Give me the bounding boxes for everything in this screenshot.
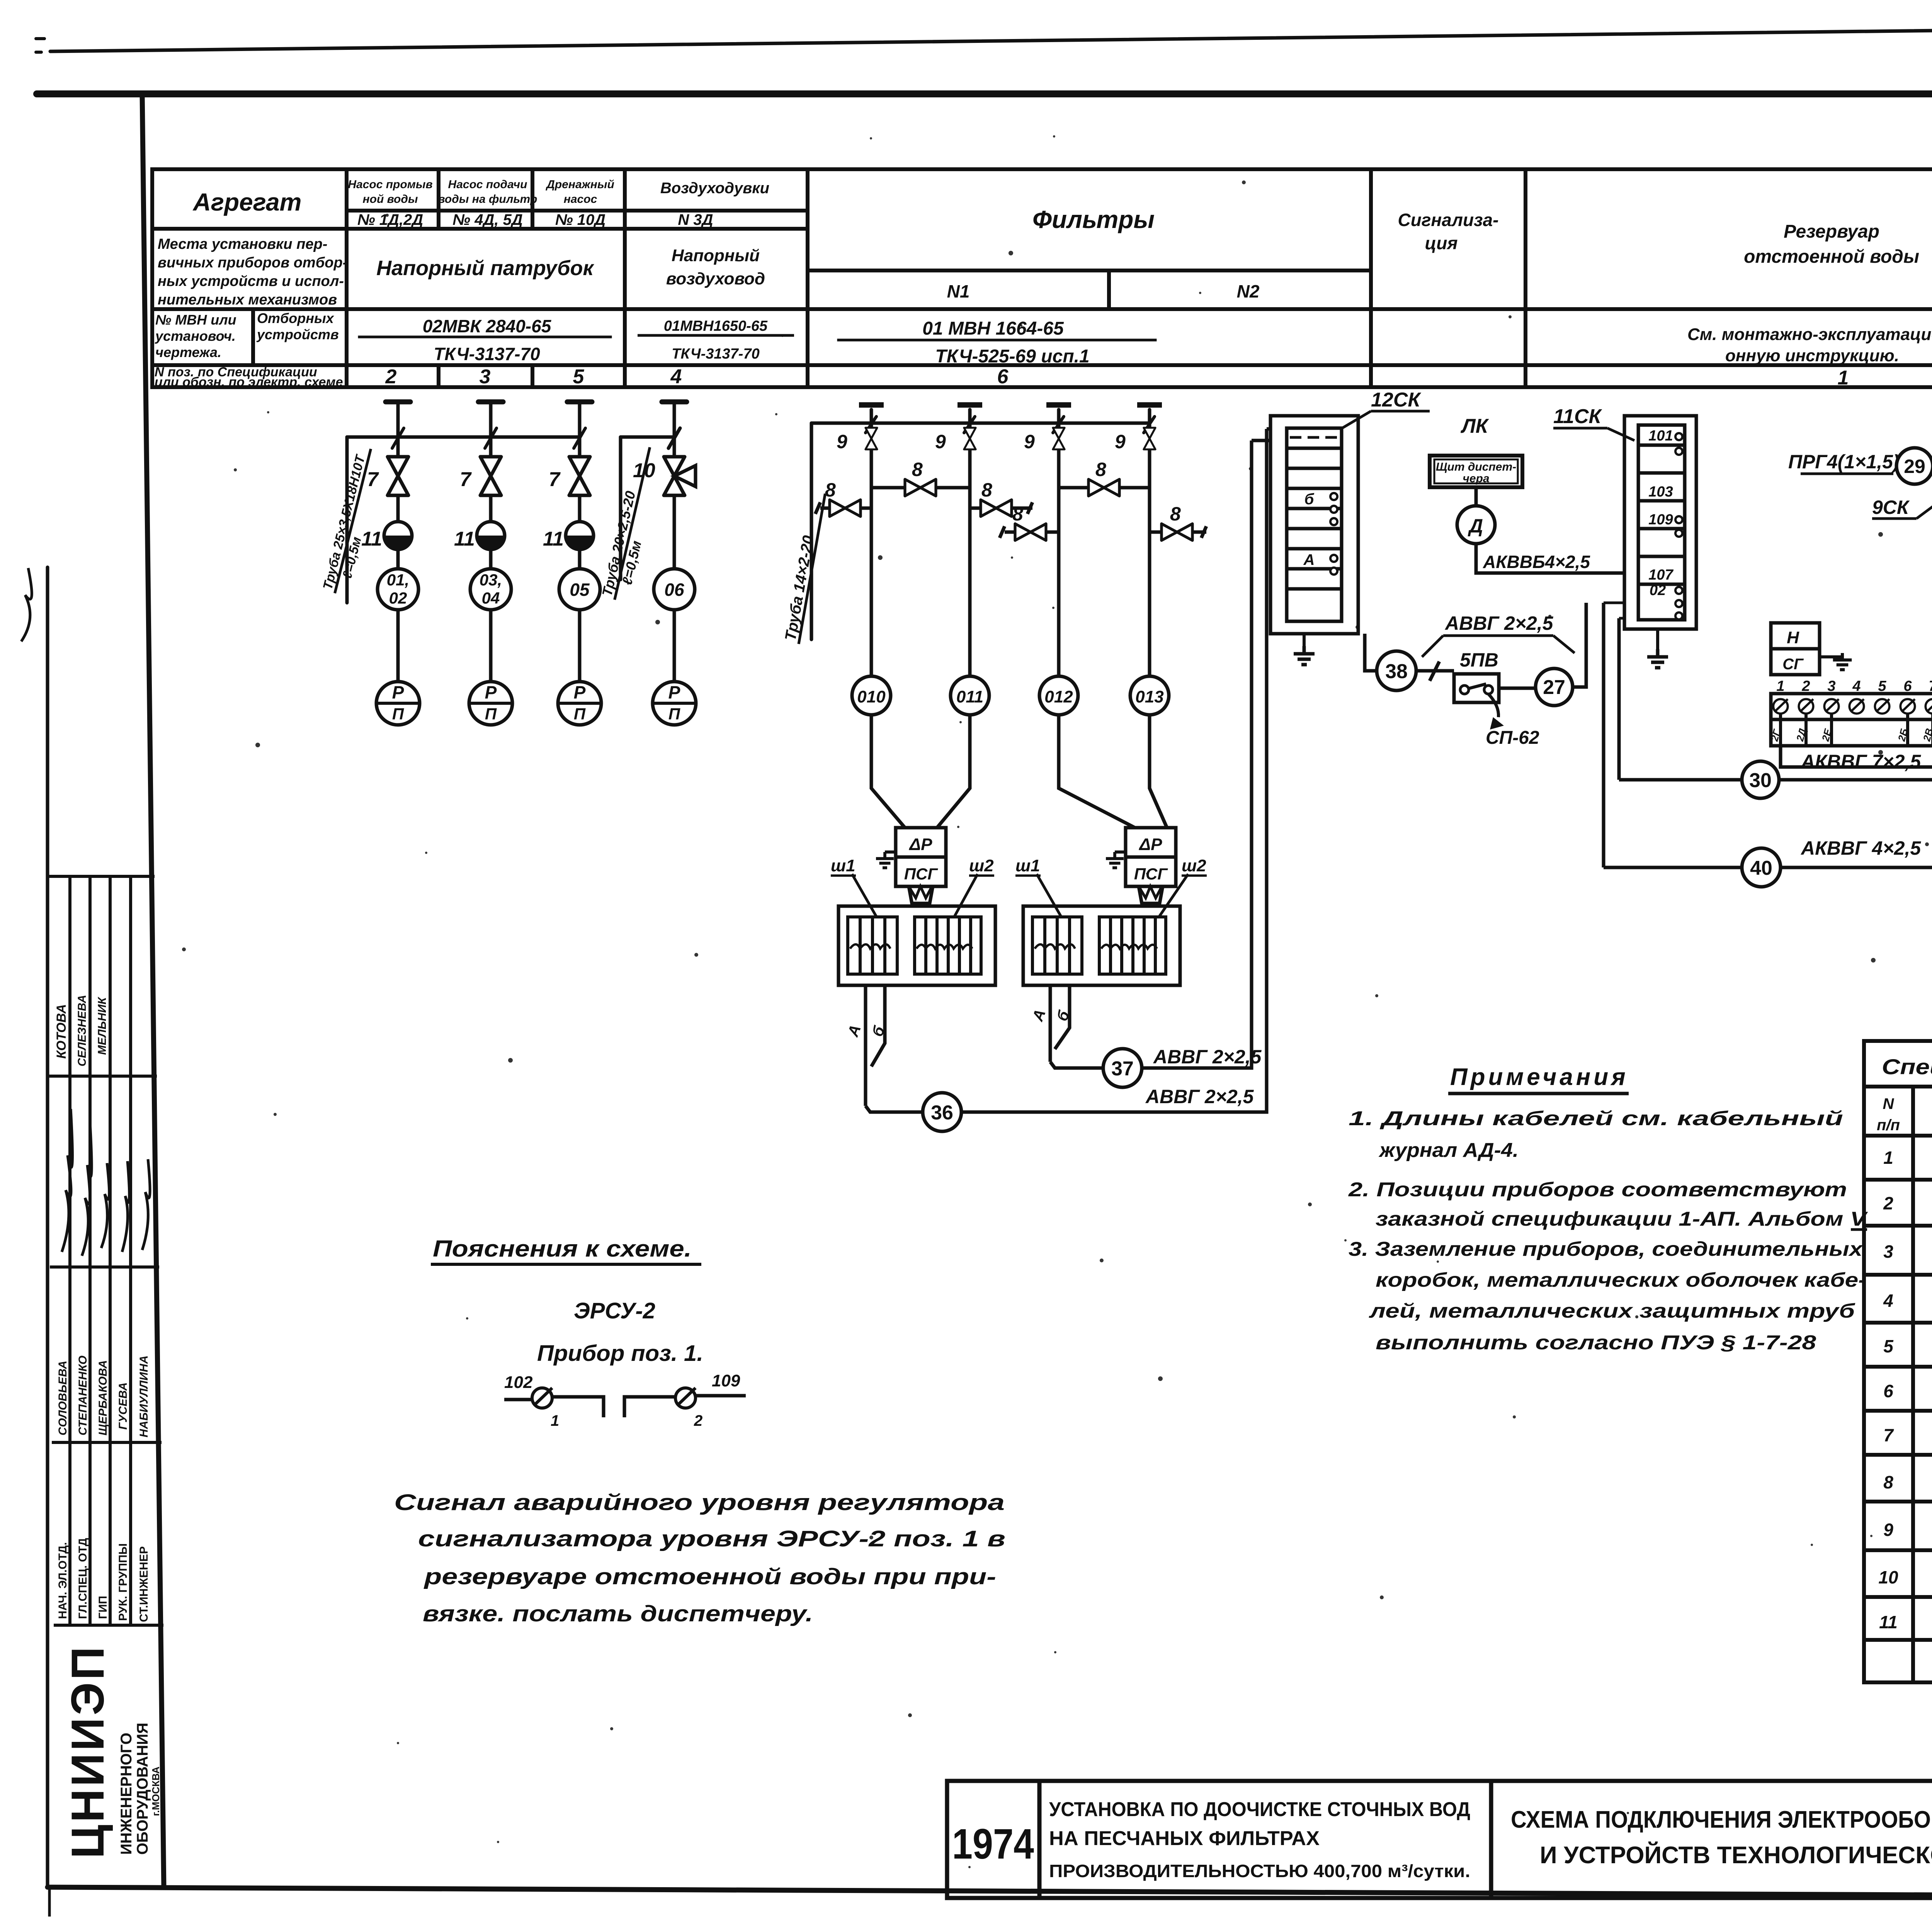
svg-text:03,: 03, [480, 571, 502, 589]
svg-text:СЕЛЕЗНЕВА: СЕЛЕЗНЕВА [76, 995, 88, 1066]
svg-text:ГИП: ГИП [97, 1596, 109, 1619]
wire col4 riser [673, 437, 676, 682]
svg-text:ГЛ.СПЕЦ. ОТД: ГЛ.СПЕЦ. ОТД [77, 1538, 89, 1619]
svg-text:9: 9 [1024, 431, 1035, 452]
svg-text:п/п: п/п [1877, 1117, 1900, 1134]
node circle 06 [654, 569, 695, 610]
wire 013 to dp2 [1150, 715, 1167, 828]
terminal strip set2 right [1099, 917, 1166, 974]
svg-text:заказной спецификации 1-АП.: заказной спецификации 1-АП. Альбом V [1376, 1208, 1868, 1230]
wire MVN sub divider [251, 309, 255, 365]
svg-text:МЕЛЬНИК: МЕЛЬНИК [96, 997, 109, 1055]
valve 8 stub left of col1 [815, 479, 871, 517]
junction box set2 outer [1023, 906, 1180, 985]
svg-text:30: 30 [1749, 769, 1772, 792]
ground under 12SK [1294, 634, 1315, 665]
node small terminal circles in 12SK [1330, 493, 1337, 575]
wire D to 11SK [1476, 544, 1624, 573]
svg-text:П: П [668, 705, 680, 723]
node title block frame [947, 1781, 1932, 1898]
wire underline album V [1851, 1228, 1867, 1231]
label signal text [394, 1490, 1005, 1626]
wire below-frame stub [48, 1887, 51, 1917]
svg-text:ТКЧ-3137-70: ТКЧ-3137-70 [672, 346, 759, 362]
svg-text:109: 109 [712, 1371, 740, 1390]
ground under 11SK [1647, 629, 1668, 668]
node t-caps above valves cols 1-3 [386, 400, 592, 405]
svg-text:журнал АД-4.: журнал АД-4. [1378, 1139, 1519, 1162]
svg-text:011: 011 [956, 687, 983, 706]
svg-text:АКВВГ 7×2,5: АКВВГ 7×2,5 [1800, 751, 1921, 772]
svg-text:Резервуар: Резервуар [1784, 221, 1879, 242]
svg-text:Р: Р [574, 682, 586, 702]
label poyasneniya title [431, 1236, 701, 1264]
svg-text:ш2: ш2 [969, 856, 994, 875]
svg-text:4: 4 [1852, 678, 1861, 694]
node circle 05 [559, 569, 600, 610]
label spec headers [1877, 1095, 1932, 1136]
svg-text:воды на фильтр: воды на фильтр [438, 193, 537, 206]
svg-text:СТЕПАНЕНКО: СТЕПАНЕНКО [77, 1355, 89, 1435]
node circle 36 [866, 1093, 961, 1131]
label stamp top rotated names [54, 995, 109, 1066]
valve 8 stub right of col4 [1150, 503, 1206, 541]
svg-text:8: 8 [912, 459, 923, 480]
wire spec column lines [1913, 1087, 1932, 1682]
svg-text:38: 38 [1385, 660, 1408, 683]
wire left margin line [46, 567, 49, 1887]
node terminal strip lower box [1771, 719, 1932, 746]
label sh1 set2 [1015, 856, 1061, 917]
svg-text:№ МВН или: № МВН или [155, 312, 236, 328]
wire switch arrow to SP-62 [1488, 694, 1498, 717]
transducer dP/PSG set1 [896, 828, 946, 903]
svg-text:ной воды: ной воды [363, 193, 418, 206]
node circle 30 [1619, 761, 1779, 798]
svg-text:5: 5 [1883, 1336, 1894, 1356]
valve 7 col3 [569, 457, 590, 495]
wire 30 to strip [1779, 778, 1932, 782]
svg-text:9: 9 [1883, 1520, 1893, 1540]
svg-text:N2: N2 [1237, 281, 1260, 301]
label AKVVB 4x2.5 [1483, 552, 1590, 572]
label sh2 set1 [954, 856, 994, 917]
valve 7 col1 [388, 457, 408, 495]
valve 8 stub left of col3 [1000, 503, 1059, 541]
svg-text:вязке. послать диспетчеру.: вязке. послать диспетчеру. [423, 1601, 813, 1626]
wire frame left vertical (slightly skewed like scan) [142, 94, 164, 1887]
svg-text:ПСГ: ПСГ [904, 865, 939, 883]
node circle 27 [1536, 668, 1573, 706]
separator RM (pos 11) col3 [543, 522, 594, 550]
label sh1 set1 [831, 856, 876, 917]
svg-text:6: 6 [1883, 1381, 1893, 1401]
svg-text:Дренажный: Дренажный [545, 178, 614, 191]
svg-text:Сигнал аварийного уровня ре: Сигнал аварийного уровня регулятора [394, 1490, 1005, 1515]
label truba 20x2.5 rotated [599, 444, 666, 604]
wire junction ticks left group [392, 428, 585, 448]
wire set1 down leads A,b [866, 985, 885, 1106]
node terminal circles row [1773, 699, 1932, 713]
wire row line under no.-row [152, 227, 808, 231]
svg-text:Прибор поз. 1.: Прибор поз. 1. [537, 1341, 703, 1366]
svg-text:Примечания: Примечания [1450, 1064, 1629, 1090]
svg-text:резервуаре отстоенной воды: резервуаре отстоенной воды при при- [423, 1564, 996, 1589]
instrument D [1457, 506, 1495, 544]
svg-text:г.МОСКВА: г.МОСКВА [150, 1767, 162, 1816]
label small codes under strip [1769, 727, 1932, 743]
valve 9 mid col3 [1024, 428, 1065, 452]
node t-cap mid col2 [957, 402, 982, 408]
svg-text:насос: насос [564, 193, 597, 206]
svg-text:Н: Н [1787, 628, 1799, 647]
wire panel to D [1475, 487, 1478, 506]
label truba 14x2-20 rotated [782, 491, 825, 644]
terminal strip set1 left [848, 917, 897, 974]
wire 12SK outer jacket walls going down [1252, 429, 1270, 597]
wire spec header bottom [1864, 1134, 1932, 1138]
wire fraction line 02MVK [359, 336, 611, 338]
svg-text:7: 7 [460, 468, 472, 491]
svg-text:103: 103 [1648, 484, 1673, 500]
svg-text:НА ПЕСЧАНЫХ ФИЛЬТРАХ: НА ПЕСЧАНЫХ ФИЛЬТРАХ [1049, 1827, 1320, 1850]
svg-text:Агрегат: Агрегат [192, 188, 302, 216]
svg-text:11СК: 11СК [1553, 405, 1602, 428]
ground at dp1 [876, 852, 896, 868]
svg-text:Насос промыв: Насос промыв [348, 178, 432, 191]
node t-cap mid col3 [1046, 402, 1071, 408]
label notes text [1348, 1107, 1868, 1354]
node t-cap mid col4 [1137, 402, 1162, 408]
svg-text:29: 29 [1904, 456, 1925, 477]
svg-text:10: 10 [633, 459, 655, 482]
node stamp signatures squiggles [21, 568, 150, 1256]
svg-text:СОЛОВЬЕВА: СОЛОВЬЕВА [56, 1361, 69, 1435]
svg-text:7: 7 [1929, 678, 1932, 694]
label 9SK [1872, 497, 1932, 519]
wire leads under strip [1781, 713, 1932, 746]
instrument P/P col1 [376, 682, 420, 725]
svg-text:107: 107 [1648, 567, 1673, 583]
wire bus 36 to riser [961, 582, 1267, 1112]
svg-text:102: 102 [504, 1373, 533, 1392]
svg-text:АВВГ 2×2,5: АВВГ 2×2,5 [1444, 612, 1554, 634]
wire 012 to dp2 [1059, 715, 1135, 828]
svg-text:ОБОРУДОВАНИЯ: ОБОРУДОВАНИЯ [134, 1723, 151, 1855]
node t-cap mid col1 [859, 402, 884, 408]
svg-text:1: 1 [1838, 367, 1849, 389]
svg-text:Щит диспет-: Щит диспет- [1436, 461, 1516, 473]
svg-text:ш2: ш2 [1182, 856, 1206, 875]
svg-text:11: 11 [361, 528, 382, 550]
panel shchit dispetchera [1430, 456, 1522, 487]
svg-text:ция: ция [1425, 233, 1458, 253]
svg-text:01 МВН 1664-65: 01 МВН 1664-65 [922, 318, 1064, 339]
wire set2 down leads A,b [1050, 985, 1070, 1062]
transducer dP/PSG set2 [1126, 828, 1176, 903]
svg-text:СТ.ИНЖЕНЕР: СТ.ИНЖЕНЕР [138, 1546, 150, 1622]
svg-text:01МВН1650-65: 01МВН1650-65 [664, 318, 768, 334]
svg-text:3. Заземление приборов, соеди: 3. Заземление приборов, соединительных [1349, 1238, 1863, 1260]
svg-text:УСТАНОВКА ПО ДООЧИСТКЕ СТОЧНЫХ: УСТАНОВКА ПО ДООЧИСТКЕ СТОЧНЫХ ВОД [1049, 1798, 1470, 1821]
svg-text:101: 101 [1648, 428, 1673, 444]
svg-text:40: 40 [1750, 857, 1772, 879]
svg-text:установоч.: установоч. [155, 328, 236, 344]
svg-text:6: 6 [1903, 678, 1912, 694]
svg-text:выполнить согласно ПУЭ § 1-7: выполнить согласно ПУЭ § 1-7-28 [1376, 1332, 1816, 1354]
svg-text:ΔР: ΔР [1139, 835, 1163, 854]
svg-text:ПСГ: ПСГ [1134, 865, 1168, 883]
svg-text:7: 7 [549, 468, 561, 491]
svg-text:ных устройств и испол-: ных устройств и испол- [158, 273, 344, 289]
node circle 01,02 [378, 569, 418, 610]
node circle 40 [1604, 848, 1781, 887]
svg-text:7: 7 [367, 468, 379, 491]
wire header manifold line cols 1-3 [347, 435, 580, 439]
valve 8 between col3 col4 [1059, 459, 1150, 496]
svg-text:4: 4 [670, 366, 682, 388]
svg-text:1974: 1974 [952, 1820, 1034, 1868]
svg-text:вичных приборов отбор-: вичных приборов отбор- [158, 255, 347, 271]
svg-text:02: 02 [389, 589, 407, 607]
svg-text:чертежа.: чертежа. [155, 344, 221, 360]
column 4 [673, 437, 676, 682]
svg-text:П: П [574, 705, 586, 723]
wire spec title underline row [1864, 1085, 1932, 1088]
svg-text:ΔР: ΔР [909, 835, 933, 854]
svg-text:РУК. ГРУППЫ: РУК. ГРУППЫ [117, 1543, 129, 1621]
separator RM (pos 11) col2 [454, 522, 505, 550]
svg-text:1: 1 [1883, 1148, 1893, 1168]
node spec table frame [1864, 1041, 1932, 1682]
svg-text:013: 013 [1135, 687, 1163, 706]
wire top thick border line [37, 90, 1932, 97]
svg-text:5: 5 [573, 366, 585, 388]
svg-text:№ 4Д, 5Д: № 4Д, 5Д [452, 211, 522, 228]
svg-text:СГ: СГ [1782, 656, 1804, 673]
node contact symbol 102-109 [504, 1396, 746, 1417]
node circle 29 [1896, 448, 1932, 484]
svg-text:012: 012 [1044, 687, 1073, 706]
wire fraction line vozduhovod [638, 334, 794, 337]
svg-text:N 3Д: N 3Д [678, 211, 713, 228]
svg-text:4: 4 [1883, 1291, 1893, 1311]
svg-text:коробок, металлических оболо: коробок, металлических оболочек кабе- [1376, 1269, 1866, 1291]
label spec rows [1878, 1148, 1932, 1634]
wire bus 37 to riser [1142, 597, 1252, 1068]
svg-text:9СК: 9СК [1872, 497, 1910, 518]
svg-text:Пояснения к схеме.: Пояснения к схеме. [433, 1236, 692, 1262]
svg-text:отстоенной воды: отстоенной воды [1744, 247, 1919, 267]
svg-text:1: 1 [1776, 678, 1784, 694]
separator RM (pos 11) col1 [361, 522, 412, 550]
node phi contact 2 [675, 1388, 702, 1429]
label sheet name [1511, 1806, 1932, 1869]
svg-text:чера: чера [1463, 472, 1489, 485]
svg-text:ПРОИЗВОДИТЕЛЬНОСТЬЮ 400,700 м³: ПРОИЗВОДИТЕЛЬНОСТЬЮ 400,700 м³/сутки. [1049, 1861, 1470, 1881]
svg-text:лей, металлических защитных: лей, металлических защитных труб [1368, 1300, 1855, 1322]
node circle 012 [1039, 676, 1078, 715]
svg-text:СХЕМА ПОДКЛЮЧЕНИЯ ЭЛЕКТРООБОРУ: СХЕМА ПОДКЛЮЧЕНИЯ ЭЛЕКТРООБОРУДОВАНИЯ, П… [1511, 1806, 1932, 1833]
switch 5PV [1454, 649, 1499, 702]
valve 8 stub right of col2 [970, 479, 1032, 517]
svg-text:№ 10Д: № 10Д [555, 211, 605, 228]
wire 27 up to 11SK [1573, 603, 1586, 687]
svg-text:онную инструкцию.: онную инструкцию. [1725, 346, 1899, 365]
label primechaniya title [1448, 1064, 1629, 1094]
node phi contact 1 [532, 1388, 559, 1429]
svg-text:воздуховод: воздуховод [666, 269, 765, 288]
wire switch to 27 [1499, 687, 1535, 690]
svg-text:01,: 01, [387, 571, 409, 589]
svg-text:109: 109 [1648, 512, 1673, 528]
svg-text:11: 11 [1879, 1612, 1898, 1632]
node circle 013 [1130, 676, 1169, 715]
node header table outer and grid [152, 167, 1932, 171]
svg-text:8: 8 [981, 479, 992, 501]
svg-text:Отборных: Отборных [257, 310, 335, 326]
column 3 [578, 437, 582, 682]
svg-text:5ПВ: 5ПВ [1460, 649, 1498, 671]
svg-text:10: 10 [1878, 1567, 1898, 1587]
wire pipe drop col4 manifold [619, 437, 622, 580]
svg-text:НАБИУЛЛИНА: НАБИУЛЛИНА [138, 1355, 150, 1437]
svg-text:11: 11 [454, 528, 475, 550]
svg-text:5: 5 [1878, 678, 1886, 694]
svg-text:ЭРСУ-2: ЭРСУ-2 [574, 1298, 655, 1323]
label 12SK [1341, 389, 1430, 429]
wire row line under places cell full width [152, 307, 1932, 311]
svg-text:КОТОВА: КОТОВА [54, 1004, 69, 1059]
wire col2 riser [489, 437, 493, 682]
svg-text:Д: Д [1468, 515, 1483, 537]
wire bus under strip to 30 [1781, 746, 1932, 780]
svg-text:05: 05 [570, 580, 590, 600]
svg-text:Р: Р [392, 682, 404, 702]
svg-text:02МВК 2840-65: 02МВК 2840-65 [423, 316, 552, 336]
svg-text:нительных механизмов: нительных механизмов [158, 292, 337, 308]
wire pipe drop at filter manifold left end [810, 423, 813, 639]
svg-text:8: 8 [1012, 503, 1023, 525]
wire 011 to dp1 [937, 715, 970, 828]
svg-text:Фильтры: Фильтры [1032, 206, 1155, 233]
svg-text:АКВВБ4×2,5: АКВВБ4×2,5 [1483, 552, 1590, 572]
wire title block verticals [1039, 1781, 1932, 1898]
wire from 12SK to circle 38 [1365, 634, 1377, 671]
wire filter manifold line [811, 422, 1150, 425]
svg-text:ЛК: ЛК [1460, 415, 1489, 437]
ground right of SG box [1820, 653, 1852, 670]
svg-text:2: 2 [1883, 1193, 1893, 1213]
node terminal numbers 1-13 [1776, 678, 1932, 694]
svg-text:1: 1 [551, 1412, 559, 1429]
svg-text:П: П [392, 705, 404, 723]
valve 9 mid col1 [837, 428, 877, 452]
node small terminal circles in 11SK [1675, 433, 1682, 619]
node t-cap col4 [662, 400, 687, 405]
svg-text:N: N [1883, 1095, 1895, 1112]
wire 11SK outer walls going down [1604, 603, 1619, 867]
wire stubs t-cap to manifold [398, 402, 580, 437]
svg-text:3: 3 [1883, 1242, 1893, 1262]
svg-text:Воздуходувки: Воздуходувки [660, 180, 769, 197]
node TSNIIEP box text [62, 1645, 162, 1859]
svg-text:37: 37 [1111, 1058, 1134, 1080]
wire spec row lines [1864, 1180, 1932, 1640]
wire pipe drop at manifold left end [345, 437, 349, 603]
svg-text:1. Длины кабелей см. к: 1. Длины кабелей см. кабельный [1349, 1107, 1843, 1130]
node circle 38 [1377, 651, 1416, 690]
label PRG4 (1x1,5) [1788, 451, 1900, 474]
column 1 [396, 437, 400, 682]
svg-text:Сигнализа-: Сигнализа- [1398, 210, 1499, 230]
node terminal strip box [1771, 694, 1932, 719]
wire N1/N2 divider [1107, 270, 1111, 309]
svg-text:2: 2 [385, 366, 397, 388]
junction box 11SK [1604, 416, 1696, 867]
svg-text:02: 02 [1650, 582, 1666, 599]
svg-text:ЦНИИЭП: ЦНИИЭП [62, 1645, 114, 1859]
node stamp strip grid [49, 875, 153, 878]
wire col4 manifold [621, 435, 674, 439]
svg-text:И УСТРОЙСТВ ТЕХНОЛОГИЧЕСКОГО К: И УСТРОЙСТВ ТЕХНОЛОГИЧЕСКОГО КОНТРОЛЯ. [1540, 1842, 1932, 1869]
svg-text:36: 36 [931, 1102, 953, 1124]
svg-text:А: А [1303, 551, 1315, 568]
wire top thin border line [50, 21, 1932, 51]
label 11SK [1553, 405, 1634, 440]
valve 9 mid col4 [1115, 428, 1155, 452]
svg-text:НАЧ. ЭЛ.ОТД.: НАЧ. ЭЛ.ОТД. [56, 1542, 69, 1619]
svg-text:ИНЖЕНЕРНОГО: ИНЖЕНЕРНОГО [118, 1733, 135, 1855]
svg-text:Р: Р [668, 682, 680, 702]
terminal strip set2 left [1032, 917, 1082, 974]
svg-text:2: 2 [1801, 678, 1810, 694]
svg-text:9: 9 [837, 431, 847, 452]
instrument P/P col3 [558, 682, 601, 725]
node SG box [1771, 649, 1820, 675]
wire 010 to dp1 [871, 715, 905, 828]
wire frame bottom line [48, 1887, 1932, 1898]
svg-text:АВВГ 2×2,5: АВВГ 2×2,5 [1153, 1046, 1262, 1068]
node circle 011 [951, 676, 989, 715]
instrument P/P col4 [653, 682, 696, 725]
instrument P/P col2 [469, 682, 512, 725]
svg-text:010: 010 [857, 687, 886, 706]
wire col1 riser [396, 437, 400, 682]
svg-text:12СК: 12СК [1371, 389, 1421, 411]
svg-text:АВВГ 2×2,5: АВВГ 2×2,5 [1145, 1086, 1254, 1107]
svg-text:или обозн. по электр. схеме: или обозн. по электр. схеме [155, 375, 343, 389]
svg-text:№ 1Д,2Д: № 1Д,2Д [357, 211, 423, 228]
wire 40 long run to shkaf riser [1781, 754, 1932, 867]
valve 10 three-way cock [633, 457, 696, 495]
svg-text:8: 8 [825, 479, 836, 501]
node circle 03,04 [470, 569, 511, 610]
svg-text:3: 3 [1827, 678, 1835, 694]
valve 9 mid col2 [935, 428, 976, 452]
svg-text:6: 6 [997, 366, 1009, 388]
svg-text:04: 04 [482, 589, 500, 607]
label object name [1049, 1798, 1470, 1881]
svg-text:9: 9 [1115, 431, 1126, 452]
wire row line under MVN row full width [152, 363, 1932, 367]
wire col3 riser [578, 437, 582, 682]
junction box 12SK [1252, 416, 1358, 634]
svg-text:устройств: устройств [256, 327, 339, 342]
junction box set1 outer [838, 906, 995, 985]
valve 7 col2 [480, 457, 501, 495]
svg-text:Напорный: Напорный [672, 246, 760, 265]
